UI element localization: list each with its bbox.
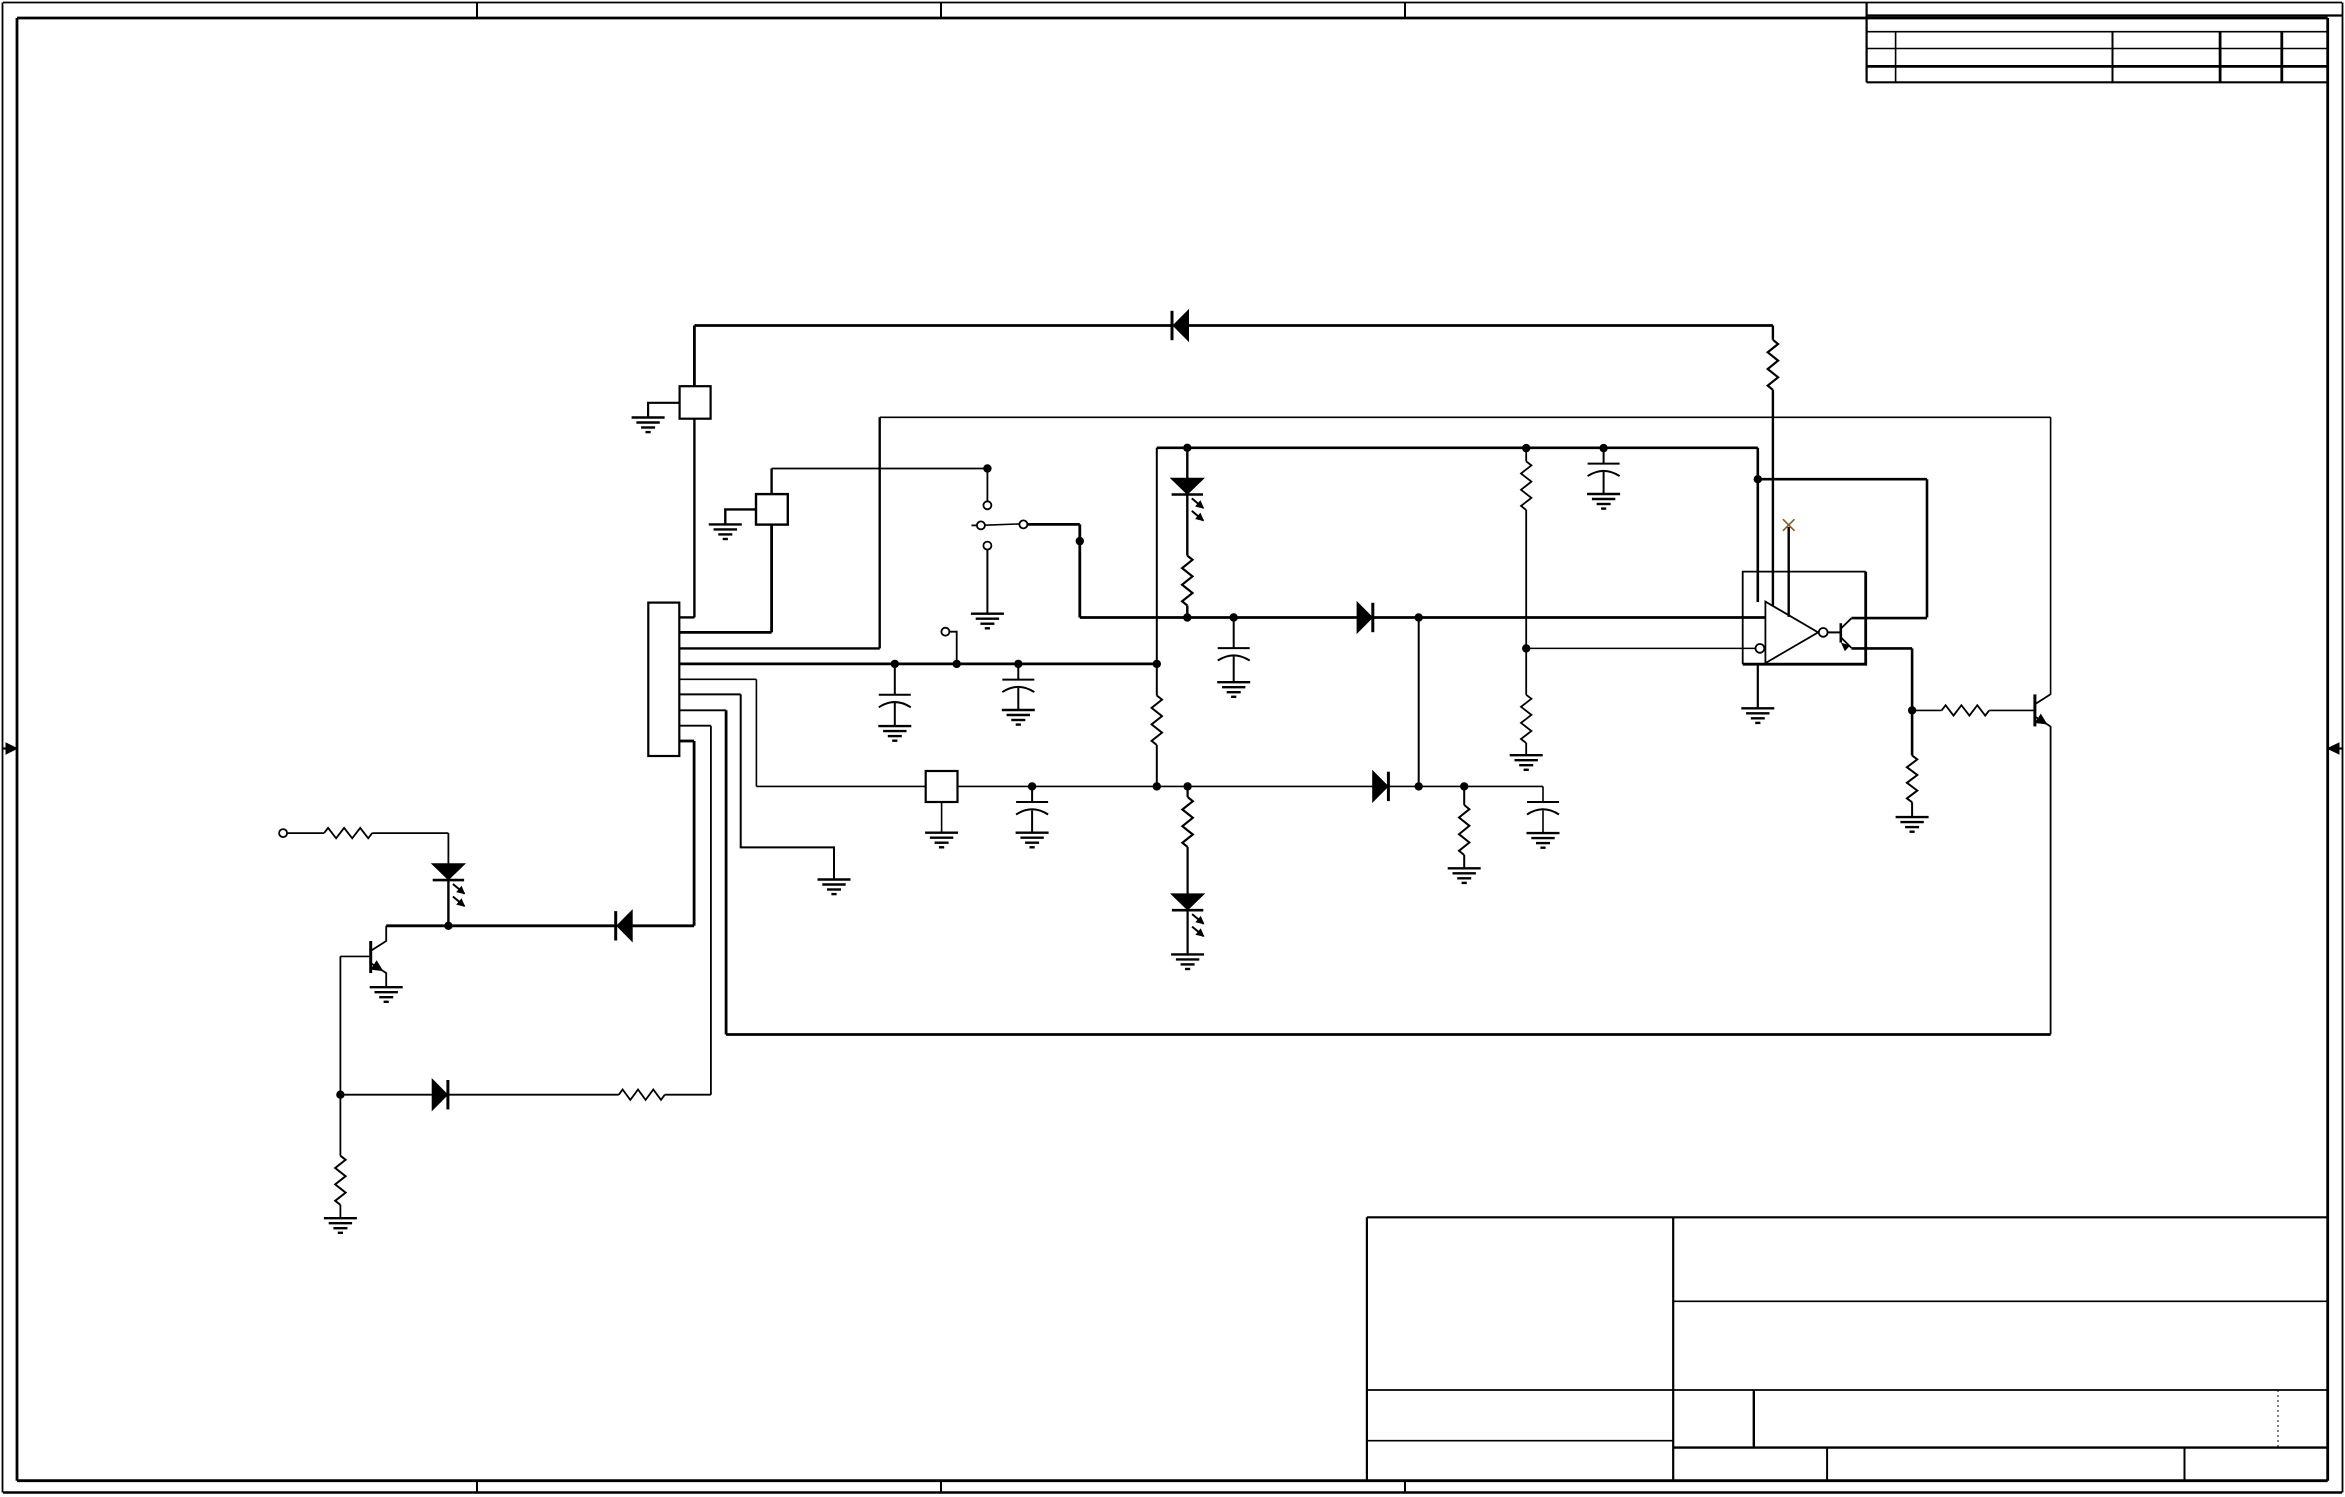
wire J1 pin4 bus — [679, 663, 1157, 666]
wire junction to D6 — [340, 1094, 432, 1096]
title block — [1367, 1216, 2328, 1218]
wire C2 to ground — [1017, 688, 1019, 710]
resistor R2 — [335, 1156, 345, 1205]
wire stub left of SW1 pole — [972, 524, 977, 526]
wire pin3 up — [879, 417, 881, 648]
ground at U1 — [1741, 708, 1774, 723]
ground at C7 — [1527, 833, 1560, 848]
wire pin7 down — [725, 710, 728, 1034]
wire J1 pin7 — [679, 709, 726, 711]
wire D7 to ground — [1186, 911, 1188, 955]
component S1 (square symbol) — [680, 386, 711, 419]
wire J1 pin2 — [679, 631, 771, 634]
wire U1 emitter down to junction — [1911, 648, 1914, 710]
resistor R6 — [1182, 797, 1192, 847]
resistor R11 — [1907, 756, 1917, 803]
junction bus at C1 — [891, 660, 899, 668]
capacitor C2 — [1002, 680, 1034, 693]
resistor R10 — [1942, 705, 1990, 715]
resistor R8 — [1521, 461, 1531, 510]
diode D3 (points right) on upper rail — [1357, 603, 1372, 632]
ground at C1 — [878, 726, 911, 741]
zone tick bottom x=941 — [940, 1481, 942, 1493]
wire SW1 common right — [1027, 523, 1079, 526]
LED D2 (down) — [1172, 479, 1204, 521]
ground at C4 — [1217, 682, 1250, 697]
LED D7 (down) — [1172, 894, 1204, 936]
wire up to pin9 — [693, 741, 696, 926]
wire C1 to ground — [894, 703, 896, 726]
junction y448 at D2 — [1183, 444, 1191, 452]
wire S2 to switch top — [772, 468, 988, 470]
wire R8 to input tap — [1525, 510, 1527, 648]
junction lower rail at C3 — [1028, 782, 1036, 790]
wire S1 ground leader — [648, 403, 680, 418]
wire collector rail to D5 — [386, 924, 616, 927]
wire C7 to ground — [1542, 810, 1544, 833]
wire Q1 base — [340, 955, 370, 957]
wire Q1 collector up — [385, 926, 387, 942]
wire from top rail down to S1 — [693, 326, 696, 387]
wire R5 to lower rail — [1156, 745, 1158, 786]
SW1 pole terminal — [977, 521, 985, 529]
wire net y448 — [1157, 446, 1758, 449]
wire S2 top up — [770, 469, 772, 495]
wire up to Q2 emitter — [2050, 726, 2052, 1034]
ground at SW1 — [971, 614, 1004, 629]
junction lower rail at R6 — [1183, 782, 1191, 790]
wire J1 pin9 — [679, 740, 694, 743]
ground at pin6 — [818, 880, 851, 895]
wire link upper to lower rail — [1418, 618, 1420, 787]
ground at Q1 — [370, 987, 403, 1002]
wire right edge down to Q2 collector — [2050, 417, 2052, 694]
wire tap to R9 — [1525, 648, 1527, 694]
wire U1 bubble to transistor base — [1828, 631, 1841, 633]
connector J1 body — [648, 603, 679, 756]
diode D1 (points left) on top rail — [1171, 311, 1174, 340]
junction at Q2 base network — [1908, 706, 1916, 714]
wire junction down to R11 — [1911, 710, 1914, 755]
wire down to opto collector rail — [1926, 479, 1929, 617]
wire junction to R10 — [1912, 709, 1942, 711]
resistor R1 — [324, 828, 372, 838]
U1 output bubble — [1819, 628, 1828, 637]
ground at R2 — [324, 1218, 357, 1233]
SW1 common terminal — [1019, 520, 1027, 528]
terminal TP1 — [941, 628, 949, 636]
junction upper rail at R3 — [1183, 613, 1191, 621]
component S2 (square symbol) — [756, 494, 788, 524]
revision table — [1865, 3, 1867, 83]
U1 photo transistor — [1840, 623, 1843, 642]
wire y448 down to opto anode pin — [1757, 448, 1760, 602]
junction bus at R5 — [1153, 660, 1161, 668]
junction base network — [336, 1091, 344, 1099]
wire J1 pin8 — [679, 725, 711, 727]
zone tick top x=941 — [940, 3, 942, 19]
wire R6 to LED D7 — [1186, 847, 1188, 894]
junction at switch top wire — [983, 464, 991, 472]
transistor Q1 — [371, 941, 387, 973]
diode D6 (points right) — [433, 1080, 448, 1109]
resistor R4 — [1768, 340, 1778, 390]
wire pin6 to ground — [741, 694, 834, 879]
resistor R12 — [619, 1090, 665, 1100]
wire C4 to ground — [1233, 656, 1235, 682]
wire upper rail D3 to opto U1 — [1374, 616, 1766, 619]
wire D6 to R12 — [449, 1094, 619, 1096]
junction on SW1 common vertical — [1076, 537, 1084, 545]
wire C5 to ground — [1603, 472, 1605, 494]
center arrow left edge — [3, 747, 13, 749]
sheet outer border right — [2342, 3, 2344, 1493]
wire S3 to ground — [941, 802, 943, 833]
capacitor C5 — [1588, 464, 1620, 477]
wire R10 to Q2 base — [1989, 709, 2035, 711]
wire pin2 up to S2 — [770, 525, 773, 633]
zone tick bottom x=1405 — [1404, 1481, 1406, 1493]
capacitor C1 — [879, 695, 911, 708]
junction bus at C2 — [1014, 660, 1022, 668]
wire lower rail S3 to D8 — [958, 785, 1374, 787]
sheet inner border bottom — [17, 1479, 2328, 1482]
wire down to D4 — [447, 833, 449, 864]
wire y448 to LED D2 — [1186, 448, 1188, 479]
wire J1 pin3 — [679, 647, 879, 649]
ground at S2 — [709, 524, 742, 539]
wire J1 pin6 — [679, 693, 740, 695]
junction lower rail at link — [1415, 782, 1423, 790]
wire J1 pin5 — [679, 678, 756, 680]
wire D2 to R3 — [1186, 495, 1188, 556]
wire J1 pin1 — [679, 616, 694, 618]
U1 receiver triangle — [1765, 602, 1818, 664]
wire bus to C2 — [1017, 664, 1019, 680]
wire S1 bottom to pin1 — [693, 419, 695, 618]
wire Q1 emitter to ground — [385, 973, 387, 988]
wire upper rail to C4 — [1233, 618, 1235, 649]
no-connect X on U1 pin — [1783, 519, 1795, 531]
wire R12 to pin8 corner — [665, 1094, 711, 1096]
wire junction down to R2 — [339, 1095, 341, 1156]
wire top rail left of D1 — [694, 324, 1172, 327]
ground at S3 — [925, 833, 958, 848]
junction Q1 collector rail — [444, 922, 452, 930]
wire input tap to U1 bubble — [1526, 647, 1755, 649]
sheet inner border right — [2326, 18, 2329, 1481]
wire top rail right of D1 — [1188, 324, 1773, 327]
wire lower rail to R6 — [1186, 786, 1188, 797]
wire U1 NC pin stub — [1787, 527, 1789, 617]
center arrow right edge — [2333, 747, 2343, 749]
junction upper rail at link — [1415, 613, 1423, 621]
sheet outer border top — [3, 2, 2342, 4]
wire U1 bottom pin to ground — [1757, 664, 1759, 708]
wire U1 emitter to right — [1851, 647, 1912, 650]
wire R7 to ground — [1463, 855, 1465, 868]
LED D4 (down) — [433, 864, 465, 906]
wire SW1 bottom throw to ground — [986, 550, 988, 614]
sheet outer border bottom — [3, 1491, 2342, 1494]
junction upper rail at C4 — [1230, 613, 1238, 621]
wire D5 to pin9 corner — [632, 924, 694, 927]
wire bus to C1 — [894, 664, 896, 695]
diode D5 (points left) on collector rail — [614, 911, 617, 940]
wire C3 to ground — [1031, 810, 1033, 832]
ground at R7 — [1448, 868, 1481, 883]
SW1 arm — [985, 524, 1020, 525]
wire top edge of loop to Q2 collector — [880, 416, 2051, 418]
junction bus at TP1 stub — [953, 660, 961, 668]
ground at D7 — [1171, 954, 1204, 969]
wire TP1 to bus — [949, 632, 956, 664]
junction at opto feed — [1754, 475, 1762, 483]
ground at R9 — [1510, 755, 1543, 770]
capacitor C7 — [1527, 802, 1559, 815]
wire y448 to C5 — [1603, 448, 1605, 464]
junction y448 at C5 — [1599, 444, 1607, 452]
wire R1 to LED D4 — [372, 832, 448, 834]
wire lower rail to S3 — [756, 785, 925, 787]
zone tick top x=477 — [476, 3, 478, 19]
wire top rail to R4 — [1772, 326, 1774, 340]
junction lower rail at R5 — [1153, 782, 1161, 790]
U1 input bubble — [1756, 644, 1765, 653]
resistor R3 — [1182, 556, 1192, 606]
U1 emitter arrow — [1842, 643, 1849, 650]
wire pin5 down — [755, 679, 757, 786]
wire R11 to ground — [1911, 802, 1913, 817]
wire lower rail to C3 — [1031, 786, 1033, 802]
wire bottom edge of loop — [726, 1033, 2051, 1036]
transistor Q2 — [2035, 694, 2050, 726]
sheet inner border top — [17, 17, 2328, 20]
wire y448 to R8 — [1525, 448, 1527, 461]
zone tick bottom x=477 — [476, 1481, 478, 1493]
wire input to R1 — [287, 832, 324, 834]
SW1 top throw terminal — [983, 501, 991, 509]
wire SW1 common down — [1078, 524, 1081, 617]
resistor R5 — [1152, 696, 1162, 746]
wire jog to right — [1758, 478, 1927, 481]
wire R2 to ground — [339, 1205, 341, 1218]
diode D8 (points right) on lower rail — [1373, 772, 1388, 801]
wire R3 to upper rail — [1186, 606, 1188, 618]
SW1 bottom throw terminal — [983, 542, 991, 550]
junction lower rail at R7 — [1460, 782, 1468, 790]
wire up to pin8 — [710, 726, 712, 1095]
wire net from y448 corner down to R5 — [1156, 448, 1158, 696]
ground at C3 — [1016, 833, 1049, 848]
wire R9 to ground — [1525, 743, 1527, 755]
wire S2 ground leader — [725, 509, 756, 524]
wire upper rail left of D3 — [1080, 616, 1358, 619]
resistor R7 — [1459, 805, 1469, 855]
capacitor C3 — [1016, 802, 1048, 815]
sheet outer border left — [2, 3, 4, 1493]
component S3 (square symbol) — [926, 771, 958, 802]
wire U1 collector to right — [1851, 617, 1927, 620]
junction input tap — [1522, 644, 1530, 652]
ground at S1 — [632, 418, 665, 433]
input terminal — [279, 829, 287, 837]
junction y448 at R8 — [1522, 444, 1530, 452]
wire lower rail to R7 — [1463, 786, 1465, 805]
ground at C2 — [1002, 710, 1035, 725]
capacitor C4 — [1218, 648, 1250, 661]
wire lower rail D8 to C7 — [1389, 785, 1543, 787]
wire D4 to collector rail — [447, 881, 449, 926]
zone tick top x=1405 — [1404, 3, 1406, 19]
wire down to SW1 top throw — [986, 469, 988, 502]
sheet inner border left — [16, 18, 19, 1481]
wire lower rail end to C7 — [1542, 786, 1544, 802]
resistor R9 — [1521, 695, 1531, 743]
wire R4 to opto U1 pin — [1772, 390, 1774, 607]
optocoupler U1 box — [1743, 572, 1866, 665]
wire Q1 base down — [339, 956, 341, 1094]
ground at C5 — [1587, 494, 1620, 509]
ground at R11 — [1896, 817, 1929, 832]
